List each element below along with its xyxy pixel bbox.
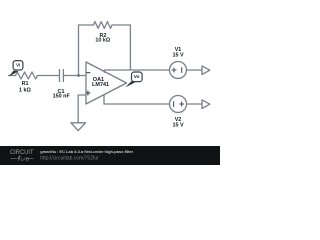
wire V1 to right ground bbox=[187, 69, 203, 71]
wire + input down to ground bbox=[77, 95, 79, 123]
junction node at inverting input bbox=[77, 74, 80, 77]
wire R1 to C1 bbox=[38, 75, 59, 77]
wire V+ rail to V1 bbox=[104, 69, 169, 71]
flag Vi bbox=[9, 61, 23, 77]
svg-text:CIRCUIT: CIRCUIT bbox=[10, 149, 34, 156]
svg-text:Vi: Vi bbox=[16, 63, 20, 68]
flag Vo bbox=[125, 72, 142, 87]
svg-text:Vo: Vo bbox=[134, 74, 140, 80]
svg-text:http://circuitlab.com/752fur: http://circuitlab.com/752fur bbox=[40, 156, 99, 162]
footer banner bbox=[0, 146, 220, 165]
source V2 bbox=[170, 96, 187, 113]
svg-text:LAB: LAB bbox=[21, 156, 29, 161]
wire input to R1 bbox=[9, 75, 16, 77]
V2 minus bar bbox=[173, 101, 175, 107]
op-amp V- pin stub bbox=[103, 95, 105, 104]
svg-text:1 kΩ: 1 kΩ bbox=[19, 88, 31, 94]
svg-text:gmariña : EC Lab 8.3.a first-o: gmariña : EC Lab 8.3.a first-order high-… bbox=[40, 149, 133, 154]
capacitor C1 bbox=[60, 69, 64, 82]
wire C1 to op-amp inverting input bbox=[63, 75, 86, 77]
svg-text:15 V: 15 V bbox=[172, 122, 183, 128]
wire feedback tap up bbox=[78, 25, 80, 76]
wire V2 to right ground bbox=[187, 103, 203, 105]
op-amp V+ pin stub bbox=[103, 70, 105, 72]
V1 plus sign bbox=[172, 68, 177, 73]
ground symbol bbox=[71, 123, 86, 131]
wire feedback drop to output rail bbox=[129, 25, 131, 70]
op-amp minus sign bbox=[86, 72, 90, 74]
op-amp non-inverting input stub bbox=[78, 94, 86, 96]
svg-text:150 nF: 150 nF bbox=[53, 94, 71, 100]
wire V- rail to V2 bbox=[104, 103, 170, 105]
CircuitLab logo bbox=[10, 149, 34, 162]
V1 minus bar bbox=[181, 67, 183, 73]
op-amp OA1 body bbox=[86, 62, 127, 104]
svg-text:15 V: 15 V bbox=[172, 53, 183, 59]
op-amp plus sign bbox=[86, 91, 91, 96]
wire R2 to feedback drop bbox=[112, 24, 130, 26]
svg-text:LM741: LM741 bbox=[92, 82, 109, 88]
ground right of V2 bbox=[202, 100, 210, 109]
V2 plus sign bbox=[179, 102, 184, 107]
wire top to R2 bbox=[79, 24, 94, 26]
source V1 bbox=[170, 62, 187, 79]
svg-text:R1: R1 bbox=[22, 81, 29, 87]
svg-text:10 kΩ: 10 kΩ bbox=[95, 38, 110, 44]
resistor R1 bbox=[16, 72, 38, 79]
ground right of V1 bbox=[202, 66, 210, 75]
resistor R2 bbox=[94, 22, 112, 29]
